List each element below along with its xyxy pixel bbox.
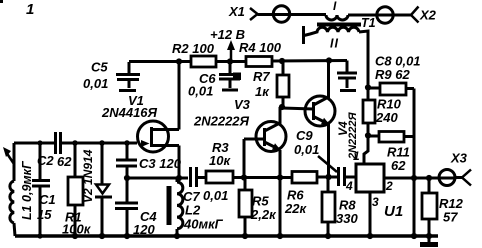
node rail C1 [37, 233, 42, 238]
svg-text:0,01: 0,01 [203, 188, 228, 203]
svg-text:II: II [330, 37, 339, 51]
+12V arrow [227, 40, 235, 61]
svg-text:2: 2 [385, 179, 393, 193]
svg-text:62: 62 [391, 158, 406, 173]
connector X3 [450, 151, 471, 186]
ground [420, 236, 438, 245]
svg-text:C2: C2 [37, 153, 54, 168]
node C3 top [124, 140, 130, 146]
capacitor C7 [191, 167, 197, 187]
bottom rail [15, 234, 438, 238]
wire C9 to U1 [346, 176, 356, 179]
transformer core [317, 23, 361, 27]
resistor R2 [191, 56, 216, 67]
wire V1 source down [178, 146, 181, 179]
svg-text:V2 1N914: V2 1N914 [81, 149, 95, 203]
diode V2 [95, 143, 112, 236]
svg-text:240: 240 [375, 110, 398, 125]
svg-text:T1: T1 [361, 16, 376, 30]
capacitor C9 [339, 167, 345, 186]
svg-text:0,01: 0,01 [294, 142, 319, 157]
svg-text:C5: C5 [91, 60, 108, 75]
resistor R4 [246, 57, 272, 67]
node rail V2 [99, 233, 105, 239]
svg-text:U1: U1 [384, 203, 403, 220]
wire R3 to R6 [233, 176, 292, 179]
resistor R9 [368, 83, 414, 95]
svg-text:R7: R7 [253, 69, 270, 84]
wire T1 to X2 [348, 14, 411, 17]
svg-text:4: 4 [345, 179, 353, 193]
node C1 top [37, 140, 42, 145]
resistor R7 [277, 61, 289, 107]
node V1 drain rail [176, 58, 182, 64]
node rail R5 [242, 233, 248, 239]
svg-text:2,2к: 2,2к [250, 207, 277, 222]
svg-text:22к: 22к [284, 201, 307, 216]
wire right column [413, 89, 416, 237]
svg-text:C9: C9 [296, 128, 313, 143]
wire gate line [62, 142, 137, 145]
svg-text:X2: X2 [419, 8, 437, 23]
wire mid line left [127, 177, 188, 180]
resistor R11 [368, 132, 414, 143]
wire X1 to T1 [258, 13, 327, 16]
svg-text:10к: 10к [209, 153, 231, 168]
svg-text:330: 330 [336, 211, 358, 226]
inductor L1 [10, 143, 15, 236]
IC U1 [356, 164, 384, 192]
capacitor C6 [219, 62, 241, 90]
wire V1 drain up [178, 61, 181, 130]
node V2 top [99, 140, 105, 146]
capacitor C3 [116, 143, 137, 178]
svg-text:57: 57 [443, 210, 458, 225]
svg-text:3: 3 [372, 195, 379, 209]
node V3 collector [279, 104, 285, 110]
svg-text:X1: X1 [228, 4, 245, 19]
resistor R6 [292, 172, 317, 184]
node column output [411, 175, 417, 181]
transformer T1 primary [326, 15, 348, 20]
svg-text:62: 62 [57, 154, 72, 169]
resistor R5 [239, 178, 252, 237]
svg-text:X3: X3 [450, 151, 468, 166]
connector X2 [411, 7, 437, 23]
svg-text:2N2222Я: 2N2222Я [193, 114, 250, 129]
transistor V4 [305, 61, 335, 126]
wire U1 pin1 [364, 136, 368, 164]
svg-text:40мкГ: 40мкГ [183, 217, 224, 232]
svg-text:0,01: 0,01 [188, 84, 213, 99]
capacitor C1 [32, 143, 50, 236]
leader C9 [318, 156, 337, 172]
capacitor C8 [337, 61, 357, 91]
svg-text:L1 0,9мкГ: L1 0,9мкГ [20, 160, 34, 220]
transistor V1 [138, 121, 180, 152]
transistor V3 [244, 107, 286, 152]
wire C5 to R2 [129, 60, 191, 63]
antenna arrow [3, 147, 14, 164]
connector circle X2 [377, 7, 393, 23]
capacitor C4 [115, 178, 138, 236]
wire R4 to rail end [272, 59, 347, 63]
node R1 top [72, 140, 78, 146]
svg-text:2N4416Я: 2N4416Я [101, 105, 158, 120]
svg-text:15: 15 [37, 207, 52, 222]
node N1 [325, 174, 331, 180]
node rail L2 [174, 233, 180, 239]
resistor R10 [363, 88, 375, 136]
svg-text:L2: L2 [185, 203, 201, 218]
node base R5 [241, 174, 247, 180]
capacitor C2 [56, 132, 61, 154]
node source mid [176, 175, 182, 181]
corner mark [0, 0, 3, 3]
wire V3 base down [243, 139, 246, 178]
svg-text:C1: C1 [39, 192, 56, 207]
node rail R1 [72, 233, 78, 239]
svg-text:V3: V3 [234, 97, 251, 112]
wire to V4 base [282, 108, 314, 109]
connector X1 [228, 4, 258, 20]
wire R6 to C9 [317, 176, 338, 179]
svg-text:1: 1 [26, 1, 34, 18]
node R10 R11 [365, 132, 371, 138]
node C3 C4 mid [124, 175, 130, 181]
node rail U1p3 [367, 233, 373, 239]
wire tank top [14, 142, 54, 145]
resistor R3 [206, 171, 233, 183]
node R9 left [365, 84, 371, 90]
node rail gnd [426, 233, 432, 239]
svg-text:0,01: 0,01 [83, 76, 108, 91]
resistor R8 [322, 177, 335, 236]
node rail col [411, 233, 417, 239]
svg-text:R4 100: R4 100 [239, 40, 282, 55]
capacitor C5 [116, 62, 140, 91]
svg-text:C3 120: C3 120 [139, 156, 182, 171]
inductor L2 [167, 178, 183, 236]
svg-text:1: 1 [353, 149, 360, 163]
wire R2 to R4 [216, 60, 246, 63]
wire U1 pin3 [369, 192, 372, 236]
wire U1 pin2 to X3 [384, 177, 455, 180]
wire C7 to R3 [198, 176, 206, 179]
wire V3 emitter down [279, 150, 282, 236]
node +12V [227, 58, 233, 64]
node rail C4 [124, 233, 130, 239]
node rail V3e [277, 233, 283, 239]
node emitter mid cross [277, 174, 283, 180]
resistor R1 [68, 143, 83, 236]
connector circle X3 [439, 170, 455, 186]
node R7 top [279, 58, 285, 64]
connector circle X1 [273, 6, 289, 22]
svg-text:1к: 1к [255, 84, 270, 99]
resistor R12 [422, 178, 437, 236]
node R12 top [426, 175, 432, 181]
svg-text:R2 100: R2 100 [172, 41, 215, 56]
node rail R8 [325, 233, 331, 239]
svg-text:R9 62: R9 62 [375, 67, 410, 82]
transformer T1 secondary [304, 26, 369, 88]
node V4 collector rail [326, 57, 332, 63]
wire V4 emitter down [327, 124, 330, 177]
